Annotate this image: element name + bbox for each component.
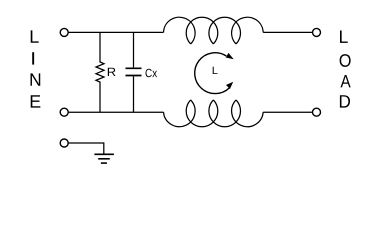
arrowhead top bbox=[226, 53, 234, 59]
arrowhead bottom bbox=[226, 82, 233, 89]
wire bottom rail bbox=[68, 111, 163, 113]
ground symbol bar 3 bbox=[101, 162, 107, 164]
terminal line bottom-left bbox=[60, 108, 68, 116]
terminal load bottom-right bbox=[313, 108, 321, 116]
wire top rail bbox=[68, 31, 163, 33]
wire top right bbox=[263, 31, 312, 33]
node LOAD label bbox=[340, 31, 351, 108]
resistor R bbox=[96, 32, 104, 112]
label Cx bbox=[146, 69, 158, 78]
terminal line top-left bbox=[60, 28, 68, 36]
wire ground bbox=[68, 143, 104, 154]
wire bottom right bbox=[263, 111, 312, 113]
capacitor Cx bbox=[133, 32, 135, 112]
inductor winding top (choke L) bbox=[164, 17, 264, 44]
circulating current arrow arc bbox=[195, 53, 230, 94]
terminal load top-right bbox=[313, 28, 321, 36]
ground symbol bar 2 bbox=[98, 158, 110, 160]
node LINE label bbox=[31, 30, 41, 107]
label R bbox=[108, 68, 116, 76]
inductor winding bottom (choke L) bbox=[164, 100, 264, 127]
ground symbol bar 1 bbox=[94, 153, 114, 155]
terminal ground bbox=[60, 139, 68, 147]
label L bbox=[213, 67, 218, 74]
